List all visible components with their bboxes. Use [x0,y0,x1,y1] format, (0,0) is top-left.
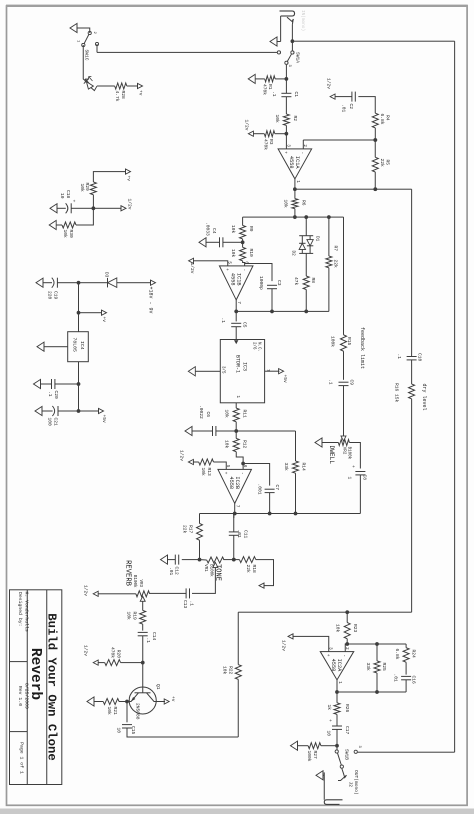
diode D3 [108,278,117,288]
svg-text:C19: C19 [53,291,59,300]
wire R14 row right [295,473,297,513]
svg-text:REVERB: REVERB [124,560,132,587]
wire VR3 wiper to R19 [142,601,144,610]
svg-text:1/2v: 1/2v [326,78,332,89]
svg-text:100k: 100k [330,336,336,347]
capacitor C17 [332,725,342,727]
svg-text:C21: C21 [53,418,59,427]
node R5 dry riser [373,187,377,191]
svg-text:+v: +v [126,176,131,182]
resistor R17 [197,523,203,540]
terminal 1/2v at R3 [248,131,253,136]
svg-text:C9: C9 [349,380,355,386]
ground R1 [248,74,255,83]
svg-text:R16 15k: R16 15k [394,383,400,403]
wire R24 to C16 [405,662,407,674]
svg-text:C6: C6 [205,412,211,418]
svg-text:+: + [283,151,288,154]
op-amp IC1A [278,149,312,179]
IC IC4 78L05 box [68,332,89,362]
wire pin3 to 1/2v [293,636,329,651]
resistor R29 [90,182,96,195]
svg-text:1000p: 1000p [258,276,264,290]
svg-text:VR1: VR1 [203,564,207,572]
svg-text:R7: R7 [333,246,339,252]
J2 tip contact [338,772,346,781]
svg-text:R13: R13 [206,468,212,477]
svg-text:C16: C16 [411,676,417,685]
svg-text:470k: 470k [261,84,267,95]
node IC2A out [335,690,339,694]
wire R15 to C9 [343,351,345,380]
ground C21 [35,406,42,415]
terminal +5v rail [79,410,100,412]
svg-text:4558: 4558 [229,273,235,286]
ground C12 [161,555,168,564]
wire R17 row [199,514,201,524]
resistor R3 [264,131,275,137]
ground IC4 [44,346,68,348]
svg-text:6.8k: 6.8k [394,649,400,660]
wire to R9 [242,217,244,225]
potentiometer VR1 TONE [207,557,224,563]
svg-text:Page 1 of 1: Page 1 of 1 [19,742,25,774]
wire R23 to pin2 [346,639,348,644]
wire R22 row [237,612,239,664]
svg-text:.1: .1 [189,601,195,607]
wire C2 top to R4 [358,97,375,114]
svg-text:-: - [300,152,305,155]
wire VR1 wiper line [192,568,215,594]
wire R6 to node A [294,209,296,217]
node R25 right [375,690,379,694]
node C7 out [268,512,272,516]
wire R3 to 1/2v [253,133,264,135]
svg-text:J2: J2 [348,782,354,788]
svg-text:10k: 10k [224,410,230,419]
svg-text:-: - [342,654,347,657]
wire feedback limit row [343,217,345,335]
wire C15 to wet riser [127,728,238,737]
wire SW1C pin2 to ground [77,28,90,33]
terminal 1/2v R18 [259,583,264,588]
transistor Q1 2N5088 [129,687,156,714]
wire R12 to pin6 [236,452,243,470]
wire C7 riser [243,464,270,486]
svg-text:R9: R9 [248,226,254,232]
resistor R6 [292,199,298,209]
svg-text:IC3: IC3 [242,362,248,371]
op-amp IC1B [219,266,253,300]
svg-text:220: 220 [47,291,53,300]
terminal +9V input [151,280,156,285]
ground C6 [185,426,192,435]
svg-text:R15: R15 [346,337,352,346]
svg-text:10k: 10k [230,225,236,234]
resistor R15 [341,335,347,351]
svg-text:+v: +v [170,696,175,702]
svg-text:+: + [325,654,330,657]
svg-text:.1: .1 [271,91,277,97]
svg-text:22k: 22k [245,565,251,574]
node C3 junction [270,310,274,314]
wire R3 stub [275,133,287,135]
svg-text:C1: C1 [293,92,299,98]
node A [293,215,297,219]
capacitor C21 [57,406,59,416]
svg-text:C7: C7 [274,485,280,491]
wire C14 to node D [142,636,144,663]
node C7 tap [241,462,245,466]
svg-text:R4: R4 [385,115,391,121]
wire C3 riser [245,264,272,282]
svg-text:2N5088: 2N5088 [135,703,141,720]
wire emitter to C15 [126,702,128,723]
J2 sleeve [323,772,325,799]
svg-text:+: + [224,268,229,271]
svg-text:+: + [71,200,76,203]
node bias [92,206,96,210]
page edge (scan) [0,809,474,814]
wire R27 stub [321,745,337,747]
wire R20 stub [121,662,143,664]
wire +v to R29 [93,172,125,182]
node pin2 riser [345,642,349,646]
svg-text:10k: 10k [274,115,280,124]
wire IC2A out riser [339,691,406,693]
ground C19 [36,278,43,287]
svg-text:R30: R30 [68,230,74,239]
node IC1B out [234,310,238,314]
ground R21 [87,697,94,706]
resistor R2 [283,114,289,125]
svg-text:-: - [241,269,246,272]
svg-text:47k: 47k [293,277,299,286]
svg-text:.01: .01 [341,104,347,113]
IC IC3 BTDR-1 box [220,340,264,403]
node C11 tone [232,558,236,562]
svg-text:R6: R6 [301,200,307,206]
svg-text:D1: D1 [315,236,320,242]
wire R30 to ground [56,224,62,226]
capacitor C18 [70,203,72,213]
wire R11 to node B [235,422,237,431]
wire SW1A to SW1C pin3 [97,51,277,53]
svg-text:OUT(mono): OUT(mono) [353,770,359,795]
svg-text:R12: R12 [242,440,248,449]
svg-text:B100k: B100k [347,447,352,460]
svg-text:10k: 10k [222,666,228,675]
svg-text:22k: 22k [379,159,385,168]
svg-text:R14: R14 [301,463,307,472]
wire node to R5 [374,140,376,157]
svg-text:R11: R11 [242,410,248,419]
LED [83,45,86,81]
wire R26 to C17 [336,714,338,725]
svg-text:.0033: .0033 [205,222,211,236]
svg-text:33k: 33k [365,663,371,672]
wire R1 to ground [255,78,265,80]
wire tone node to pot [224,559,234,561]
svg-text:SW1A: SW1A [295,52,301,63]
svg-text:.01: .01 [393,674,399,683]
svg-text:+5v: +5v [101,415,107,424]
resistor R25 [374,661,380,673]
wire R14 row left [295,431,297,461]
svg-text:10k: 10k [126,612,132,621]
J1 tip contact [287,17,293,24]
svg-text:10: 10 [326,731,332,737]
capacitor C4 [222,237,224,247]
node IC1A output [293,187,297,191]
svg-text:+: + [350,465,355,468]
svg-text:10k: 10k [200,468,206,477]
svg-text:R18: R18 [251,565,257,574]
svg-text:+5v: +5v [282,375,288,384]
svg-text:-: - [239,472,244,475]
svg-text:4558: 4558 [330,659,336,672]
wire R29 to node [92,195,94,209]
wire IC1B out [235,300,237,312]
wire VR2 top to C8 [349,443,360,469]
terminal +v Q1 collector [164,699,169,704]
svg-text:C14: C14 [151,632,157,641]
node C21 [77,409,81,413]
capacitor C14 [138,631,148,633]
svg-text:R26: R26 [344,704,350,713]
svg-text:.1: .1 [47,391,53,397]
wire R18 to node [234,559,240,561]
node R1 top [285,77,289,81]
svg-text:SW1C: SW1C [84,50,90,61]
svg-text:+18v - 9v: +18v - 9v [148,287,154,314]
resistor R18 [239,557,255,563]
capacitor C3 [267,284,277,286]
wire node D to Q1 base [142,663,144,693]
resistor R7 [326,256,332,268]
svg-text:Q1: Q1 [155,684,161,690]
wire J1 tip to node [291,25,293,42]
wire R16 to mix riser [411,399,413,612]
svg-text:DWELL: DWELL [328,446,335,465]
resistor R28 [115,83,127,89]
pins 3/5 ground stub [195,370,220,372]
svg-text:VR3: VR3 [138,579,142,587]
ground R30 [49,220,56,229]
svg-text:R29: R29 [84,183,90,192]
wire IC1A pin2 stub [302,140,304,149]
wire IC3 pin1 to R11 [235,403,237,408]
terminal +v bias [126,169,131,174]
svg-text:C12: C12 [174,567,180,576]
capacitor C7 [265,488,275,490]
resistor R20 [105,660,121,666]
wire IC2B out [234,503,236,513]
wire SW1A to R1 node [285,65,287,79]
svg-text:R17: R17 [188,525,194,534]
wire out riser [234,513,361,515]
svg-text:R25: R25 [381,663,387,672]
wire tone column top hook [256,560,274,586]
wire SW1C pin3 [96,44,98,52]
node C20 [77,382,81,386]
svg-text:SW1B: SW1B [344,749,350,760]
wire mix riser [238,611,411,613]
resistor R8 [303,276,309,290]
svg-text:.01: .01 [168,567,174,576]
node R17 tone [198,558,202,562]
wire R1 stub [275,78,286,80]
wire C8 to out riser [359,475,361,514]
capacitor C11 [229,531,239,533]
node feedback R4 R5 [373,138,377,142]
wire node to R30 [76,208,93,225]
svg-text:1: 1 [347,477,353,480]
svg-text:R28: R28 [120,91,126,100]
svg-text:R24: R24 [411,650,417,659]
wire R17 to tone col [199,540,201,559]
wire D1 row left [305,217,307,236]
svg-text:D2: D2 [291,251,296,257]
resistor R1 [265,76,275,82]
resistor R26 [334,703,340,715]
svg-text:1k: 1k [326,705,332,711]
ground SW1C [70,23,77,32]
resistor R5 [372,157,378,172]
terminal 1/2v IC2A [288,634,293,639]
wire pin5 to 1/2v [193,261,228,266]
ground C20 [34,379,41,388]
node R23 mix [345,610,349,614]
svg-text:1/2v: 1/2v [244,120,250,131]
svg-text:10k: 10k [224,440,230,449]
node jack tip / bypass [291,39,295,43]
wire R2 to node [285,125,287,133]
node G [335,744,339,748]
node D1 tap [304,215,308,219]
wire bypass riser left [292,40,454,42]
node Q1 emitter [125,700,129,704]
wire C10 to R16 [411,363,413,384]
wire emitter to R21 [119,701,127,703]
output jack J2 [324,800,342,805]
capacitor C16 [401,675,411,677]
svg-text:.1: .1 [220,318,226,324]
svg-text:R1: R1 [267,84,273,90]
wire R7 row right [328,268,330,312]
potentiometer VR2 DWELL [338,440,349,446]
svg-text:100: 100 [47,418,53,427]
svg-text:R10: R10 [248,249,254,258]
svg-text:1/2v: 1/2v [83,585,89,596]
svg-text:4.7k: 4.7k [114,91,120,102]
svg-text:22k: 22k [182,525,188,534]
svg-text:+: + [223,472,228,475]
svg-text:VR2: VR2 [342,447,346,455]
wire R10 to pin6 [243,261,245,266]
wire LED to R28 [97,85,115,87]
ground VR2 [315,438,322,447]
wire R7 row left [328,217,330,256]
svg-text:R22: R22 [228,666,234,675]
wire out to C11 row [233,514,235,519]
svg-text:.1: .1 [145,638,151,644]
svg-text:10k: 10k [230,249,236,258]
wire R25 row right [376,673,378,692]
wire D3 to rail [79,282,108,284]
svg-text:+v: +v [138,90,143,96]
resistor R21 [103,699,119,705]
resistor R4 [372,113,378,128]
svg-text:100k: 100k [306,751,312,762]
wire D1 to R8 [305,253,307,276]
resistor R24 [403,648,409,663]
svg-text:.01: .01 [236,530,242,539]
resistor R19 [140,610,146,624]
wire node B to R12 [235,431,237,438]
resistor R13 [199,459,214,465]
wire SW1B common to J2 tip [342,769,343,773]
capacitor C15 [122,724,132,726]
svg-text:+: + [327,719,332,722]
svg-text:R8: R8 [310,278,316,284]
svg-text:C15: C15 [130,726,136,735]
svg-text:IN(mono): IN(mono) [300,10,305,31]
wire node A riser down [243,216,295,218]
svg-text:1/2v: 1/2v [189,263,195,274]
svg-text:feedback limit: feedback limit [359,327,365,369]
wire J1 sleeve [280,16,282,42]
capacitor C12 [178,555,180,565]
svg-text:Designed by:: Designed by: [17,592,23,627]
terminal 1/2v bias [121,206,126,211]
wire node to IC1A pin3 [285,134,287,149]
node +v tap [77,311,81,315]
terminal +v rail [79,312,103,314]
wire R8 to riser [305,290,307,312]
wire R27 to ground [298,745,309,747]
resistor R10 [240,247,246,260]
wire R20 to 1/2v [98,662,105,664]
node IC2B out [233,512,237,516]
title block [10,590,62,785]
pin 7 +5v stub [265,370,280,372]
svg-text:1/2v: 1/2v [179,450,185,461]
ground C18 [50,204,57,213]
resistor R22 [235,665,241,680]
resistor R30 [62,222,76,228]
resistor R12 [233,438,239,451]
resistor R16 [409,384,415,399]
svg-text:D3: D3 [104,272,109,278]
svg-text:.0022: .0022 [198,405,204,419]
svg-text:N.C.: N.C. [257,342,261,352]
ground R27 [291,741,298,750]
svg-text:470k: 470k [262,139,268,150]
wire input to D3 [117,282,151,284]
wire bypass top line [454,41,456,752]
wiper arrow VR3 [140,596,145,601]
capacitor C8 [355,471,365,473]
svg-text:2/6: 2/6 [252,342,257,350]
svg-text:R3: R3 [268,139,274,145]
ground J2 [323,774,324,776]
capacitor C13 [189,588,191,598]
wire C17 to node G [336,729,338,745]
wire dry row start [411,189,413,353]
wire pin5 to R13 [214,462,227,469]
svg-text:B100k: B100k [209,564,214,577]
